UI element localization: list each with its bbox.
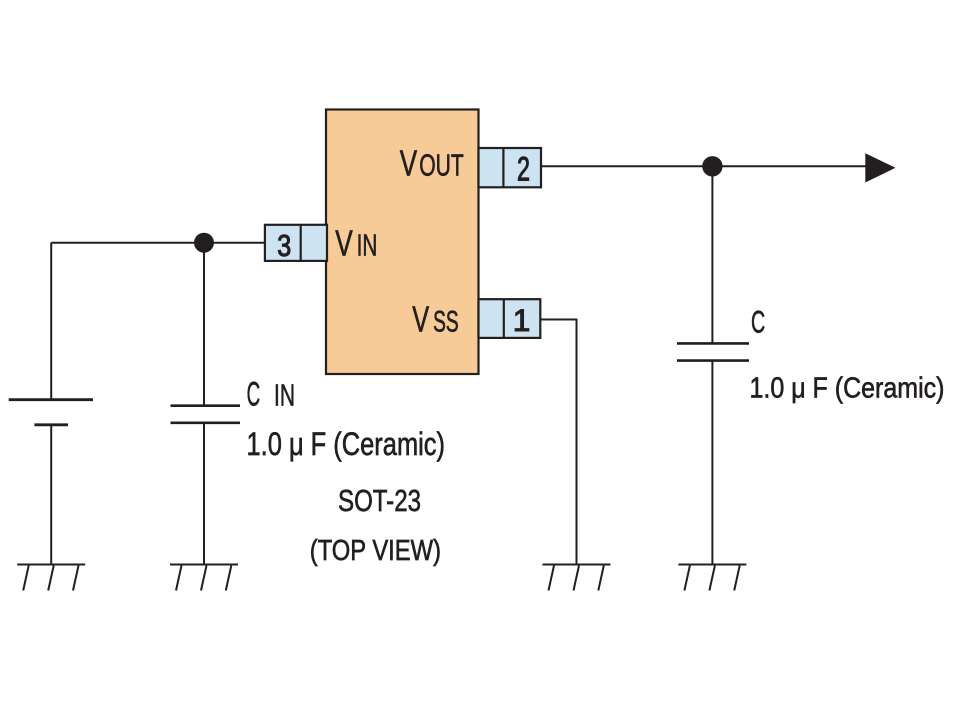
node A input junction dot xyxy=(194,233,214,253)
svg-text:C: C xyxy=(247,375,261,413)
wire VSS to ground xyxy=(541,320,577,565)
svg-text:2: 2 xyxy=(517,151,530,189)
battery B1 short plate xyxy=(34,423,68,426)
battery B1 long plate xyxy=(9,398,93,401)
capacitor CIN plates xyxy=(171,406,241,423)
svg-text:1.0 μ F (Ceramic): 1.0 μ F (Ceramic) xyxy=(247,426,446,462)
svg-text:SS: SS xyxy=(433,306,459,339)
svg-text:1.0 μ F (Ceramic): 1.0 μ F (Ceramic) xyxy=(750,372,945,404)
capacitor C plates xyxy=(677,343,749,360)
ground G1 xyxy=(17,565,85,591)
ground G4 xyxy=(678,565,746,591)
wire C to ground xyxy=(711,361,713,565)
ground G3 xyxy=(543,565,611,591)
pin 2 box xyxy=(479,148,542,187)
pin 1 box xyxy=(479,299,541,338)
arrow output xyxy=(865,153,895,182)
op-amp U1 SOT-23 regulator body xyxy=(326,110,479,375)
svg-text:V: V xyxy=(412,299,429,340)
wire CIN to ground xyxy=(203,423,205,565)
svg-text:V: V xyxy=(335,223,353,264)
svg-text:1: 1 xyxy=(513,302,531,338)
wire VOUT horizontal xyxy=(541,165,867,167)
wire VIN input horizontal xyxy=(51,242,265,244)
pin 3 box xyxy=(265,225,327,261)
wire CIN top vertical xyxy=(203,243,205,405)
wire C top vertical xyxy=(711,166,713,343)
svg-text:C: C xyxy=(751,303,765,339)
svg-text:(TOP VIEW): (TOP VIEW) xyxy=(310,535,441,567)
node B output junction dot xyxy=(702,156,722,176)
svg-text:3: 3 xyxy=(277,228,291,263)
svg-text:OUT: OUT xyxy=(419,149,464,183)
svg-text:SOT-23: SOT-23 xyxy=(338,483,421,518)
wire battery top vertical xyxy=(50,243,52,399)
svg-text:V: V xyxy=(400,143,417,184)
svg-text:IN: IN xyxy=(274,377,295,412)
wire battery to ground xyxy=(50,425,52,565)
svg-text:IN: IN xyxy=(357,229,378,263)
ground G2 xyxy=(170,565,238,591)
